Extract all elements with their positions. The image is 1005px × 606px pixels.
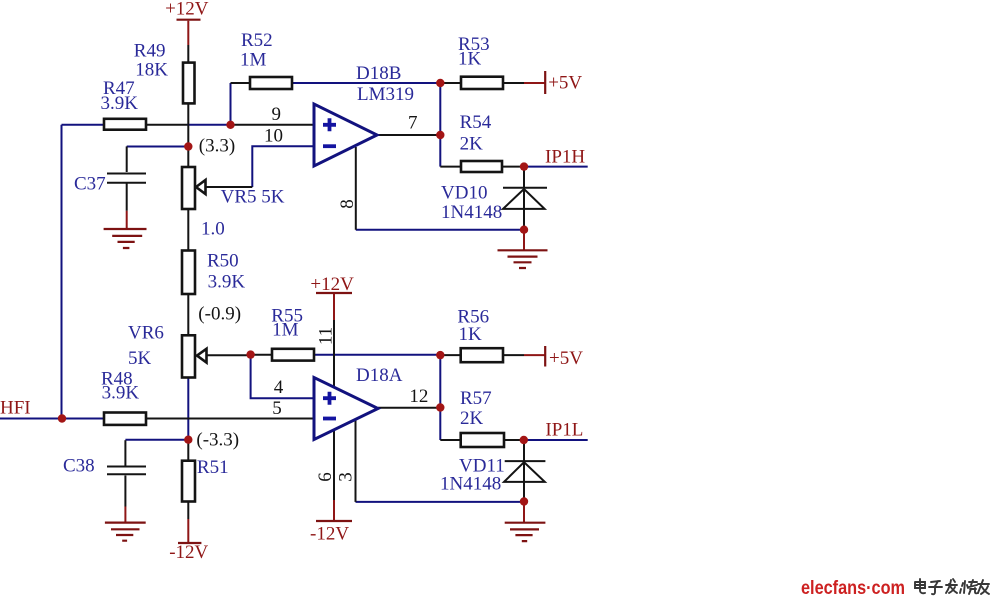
svg-text:LM319: LM319 <box>357 84 414 105</box>
svg-text:11: 11 <box>316 327 337 345</box>
svg-text:VR5 5K: VR5 5K <box>221 187 285 208</box>
svg-text:VD10: VD10 <box>441 183 487 204</box>
svg-text:R57: R57 <box>460 388 492 409</box>
svg-text:D18A: D18A <box>356 365 403 386</box>
svg-text:(3.3): (3.3) <box>199 136 235 157</box>
svg-text:C38: C38 <box>63 456 95 477</box>
svg-text:1.0: 1.0 <box>201 219 225 240</box>
svg-text:1N4148: 1N4148 <box>441 202 502 223</box>
svg-text:7: 7 <box>408 113 418 134</box>
svg-text:R54: R54 <box>460 112 492 133</box>
svg-text:(-3.3): (-3.3) <box>196 430 239 451</box>
svg-text:12: 12 <box>409 386 428 407</box>
svg-text:1K: 1K <box>458 49 482 70</box>
svg-text:3: 3 <box>336 472 357 482</box>
svg-text:+5V: +5V <box>549 348 583 369</box>
svg-text:1K: 1K <box>459 324 483 345</box>
svg-text:(-0.9): (-0.9) <box>198 304 241 325</box>
svg-text:D18B: D18B <box>356 63 401 84</box>
svg-text:8: 8 <box>337 199 358 209</box>
svg-text:+12V: +12V <box>310 274 354 295</box>
svg-text:3.9K: 3.9K <box>208 272 246 293</box>
svg-text:-12V: -12V <box>169 542 208 563</box>
svg-text:5K: 5K <box>128 348 152 369</box>
svg-text:1M: 1M <box>240 50 267 71</box>
svg-text:HFI: HFI <box>0 398 31 419</box>
svg-text:R50: R50 <box>207 251 239 272</box>
svg-text:4: 4 <box>274 377 284 398</box>
svg-text:3.9K: 3.9K <box>102 383 140 404</box>
svg-text:-12V: -12V <box>310 524 349 545</box>
svg-text:+12V: +12V <box>165 0 209 20</box>
svg-text:IP1L: IP1L <box>545 420 583 441</box>
svg-text:IP1H: IP1H <box>545 147 585 168</box>
svg-text:R49: R49 <box>134 41 166 62</box>
svg-text:10: 10 <box>264 126 283 147</box>
svg-text:3.9K: 3.9K <box>101 93 139 114</box>
svg-text:elecfans·com: elecfans·com <box>801 578 905 599</box>
svg-text:18K: 18K <box>135 60 168 81</box>
svg-text:1N4148: 1N4148 <box>440 474 501 495</box>
svg-text:2K: 2K <box>460 408 484 429</box>
svg-text:R52: R52 <box>241 30 273 51</box>
svg-text:C37: C37 <box>74 174 106 195</box>
svg-text:6: 6 <box>315 472 336 482</box>
svg-text:R51: R51 <box>197 457 229 478</box>
svg-text:1M: 1M <box>272 320 299 341</box>
svg-text:+5V: +5V <box>548 73 582 94</box>
svg-text:9: 9 <box>272 104 282 125</box>
svg-text:5: 5 <box>272 398 282 419</box>
svg-text:2K: 2K <box>460 134 484 155</box>
svg-text:VR6: VR6 <box>128 323 164 344</box>
